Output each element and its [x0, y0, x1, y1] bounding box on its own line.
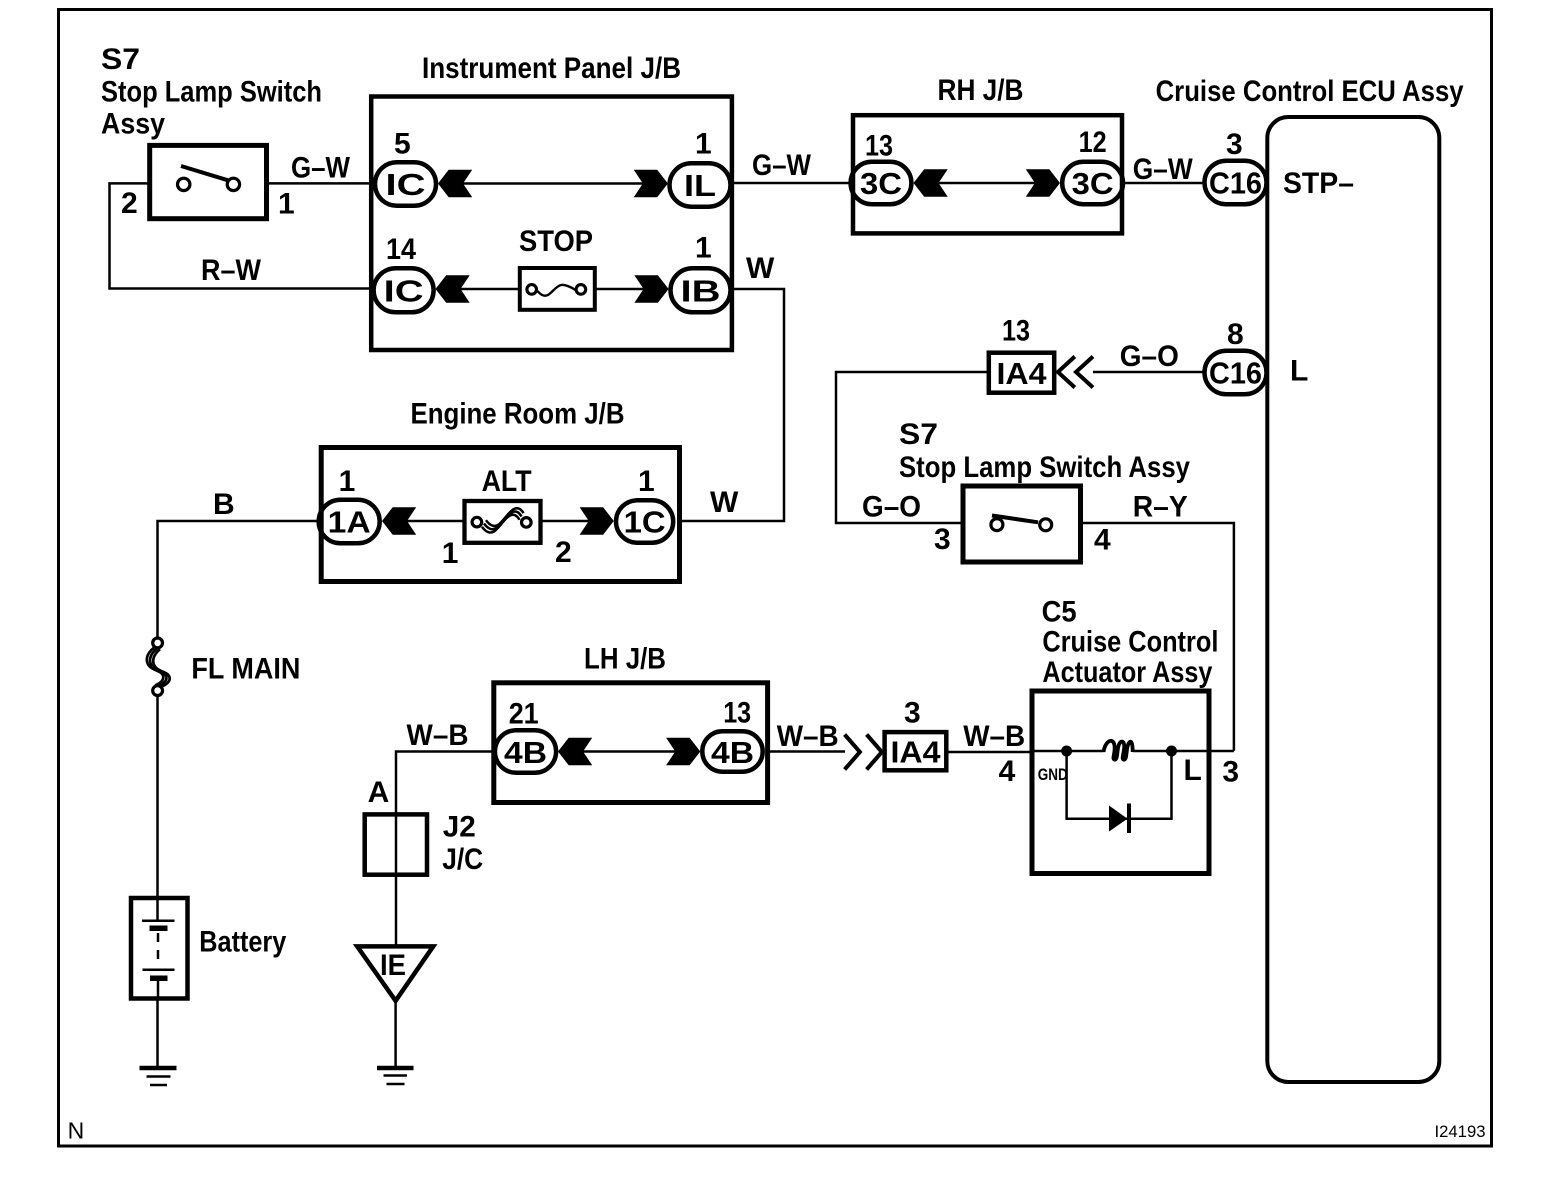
svg-text:3: 3 [1226, 128, 1243, 161]
connector IC (pin 5) [375, 162, 436, 206]
svg-text:S7: S7 [899, 418, 938, 451]
svg-text:2: 2 [121, 187, 138, 220]
svg-text:W: W [746, 252, 775, 285]
ground (IE) [377, 1068, 414, 1084]
svg-text:IC: IC [384, 273, 424, 308]
svg-text:L: L [1290, 355, 1308, 388]
double chevron right (shield connector) [845, 735, 882, 770]
svg-text:Instrument Panel J/B: Instrument Panel J/B [422, 52, 681, 85]
svg-text:8: 8 [1227, 318, 1244, 351]
connector IC (pin 14) [374, 268, 434, 312]
svg-text:W–B: W–B [777, 720, 839, 753]
svg-text:4B: 4B [504, 735, 547, 770]
svg-text:1C: 1C [624, 505, 666, 540]
connector 3C (pin 13) [851, 162, 912, 204]
fuse STOP [520, 268, 595, 310]
RH J/B box [853, 115, 1122, 233]
svg-text:Cruise Control ECU Assy: Cruise Control ECU Assy [1156, 75, 1464, 108]
wire G-W IL to RH J/B [732, 182, 853, 185]
wire row2 to fuse [461, 288, 520, 291]
wire from IA4 pin13 left and down to switch S7 pin 3 [836, 372, 989, 523]
connector 4B (pin 21) [495, 730, 556, 773]
svg-text:RH J/B: RH J/B [938, 74, 1024, 107]
arrow chevron right row2 [634, 275, 668, 303]
svg-text:1: 1 [638, 465, 655, 498]
svg-text:13: 13 [1002, 315, 1030, 348]
diode branch wires [1067, 751, 1172, 819]
svg-text:GND: GND [1038, 765, 1068, 784]
arrow chevron left LHJB [558, 738, 592, 766]
svg-text:G–W: G–W [1133, 153, 1194, 186]
svg-text:1: 1 [695, 128, 712, 161]
svg-text:R–Y: R–Y [1133, 491, 1188, 524]
Instrument Panel J/B box [371, 97, 732, 351]
wire R-Y from switch pin 4 right and down to actuator pin 3 [1081, 523, 1234, 751]
arrow chevron left row1 [438, 170, 472, 198]
svg-text:J/C: J/C [442, 843, 483, 876]
svg-text:A: A [368, 776, 390, 809]
svg-text:LH J/B: LH J/B [584, 643, 666, 676]
svg-text:IA4: IA4 [997, 356, 1048, 391]
svg-text:14: 14 [386, 233, 416, 266]
junction J2 J/C [365, 814, 427, 874]
wire W-B IA4 to actuator pin 4 [946, 751, 1032, 754]
wire to ALT fuse [407, 520, 465, 523]
junction connector IA4 (pin 13) [989, 353, 1054, 393]
svg-text:G–W: G–W [291, 152, 351, 185]
arrow chevron right LHJB [666, 738, 700, 766]
wire G-W switch S7 pin1 to IPJB [267, 182, 373, 185]
wire inside actuator right to pin 3 [1133, 750, 1234, 753]
ground triangle IE [357, 946, 433, 1000]
svg-text:13: 13 [723, 696, 751, 729]
svg-text:4: 4 [999, 755, 1016, 788]
double chevron left (shield connector) [1058, 357, 1093, 388]
connector IL (pin 1) [670, 163, 731, 206]
svg-text:3: 3 [934, 523, 951, 556]
svg-text:IB: IB [681, 273, 721, 308]
svg-text:C16: C16 [1209, 166, 1262, 201]
coil L (actuator solenoid) [1104, 741, 1133, 760]
connector C16 (pin 8) [1205, 351, 1267, 395]
svg-text:4: 4 [1094, 524, 1111, 557]
svg-text:FL MAIN: FL MAIN [191, 653, 300, 686]
svg-text:W–B: W–B [407, 719, 469, 752]
svg-text:G–W: G–W [752, 149, 812, 182]
svg-text:1: 1 [442, 537, 459, 570]
svg-text:W–B: W–B [963, 720, 1025, 753]
wire G-O C16 pin8 to chevrons [1093, 371, 1205, 374]
arrow chevron left RHJB [914, 169, 948, 197]
arrow chevron right RHJB [1026, 169, 1060, 197]
wire inside LH J/B [583, 750, 675, 753]
svg-text:Stop Lamp Switch: Stop Lamp Switch [101, 76, 322, 109]
svg-text:L: L [1184, 754, 1202, 787]
wire B battery to ERJB 1A [158, 521, 322, 637]
svg-text:3C: 3C [860, 166, 902, 201]
diode D (flyback) [1109, 804, 1129, 834]
svg-text:STP–: STP– [1283, 167, 1354, 200]
wire inside actuator left [1032, 750, 1104, 753]
svg-text:STOP: STOP [519, 225, 593, 258]
svg-text:1: 1 [339, 465, 356, 498]
svg-text:3C: 3C [1072, 166, 1114, 201]
connector C16 (pin 3) [1205, 161, 1267, 205]
wire ALT to chevron [541, 520, 589, 523]
wire R-W switch S7 pin2 down and right to IPJB IC14 [110, 183, 375, 288]
svg-text:1: 1 [278, 188, 295, 221]
svg-text:Engine Room J/B: Engine Room J/B [411, 398, 625, 431]
svg-text:C5: C5 [1042, 596, 1077, 629]
junction connector IA4 (pin 3) [885, 732, 947, 770]
svg-text:C16: C16 [1209, 356, 1262, 391]
svg-text:Assy: Assy [101, 108, 165, 141]
switch S7 (stop lamp switch assy, pins 3-4) [963, 486, 1081, 562]
svg-text:Stop Lamp Switch Assy: Stop Lamp Switch Assy [899, 451, 1190, 484]
switch S7 (stop lamp switch assy, pins 2-1) [150, 145, 267, 218]
svg-text:IE: IE [380, 949, 406, 982]
ground (battery) [140, 1068, 177, 1085]
svg-text:S7: S7 [101, 43, 140, 76]
wire W-B from LHJB 4B21 left and down to J2 [396, 752, 494, 947]
svg-text:IC: IC [386, 167, 426, 202]
svg-text:1A: 1A [328, 505, 371, 540]
wire G-W RH J/B to C16 [1122, 182, 1205, 185]
svg-text:13: 13 [865, 129, 893, 162]
svg-text:I24193: I24193 [1435, 1122, 1486, 1141]
fusible link ALT (pins 1-2) [465, 501, 541, 543]
svg-text:G–O: G–O [1120, 340, 1179, 373]
Engine Room J/B box [321, 448, 679, 582]
svg-text:3: 3 [1222, 756, 1239, 789]
svg-text:R–W: R–W [201, 254, 262, 287]
svg-text:IA4: IA4 [891, 735, 942, 770]
connector 1C (pin 1) [616, 500, 673, 542]
wire fuse to chevron [596, 288, 643, 291]
connector 4B (pin 13) [702, 731, 762, 771]
svg-text:Actuator Assy: Actuator Assy [1042, 656, 1212, 689]
actuator C5 box [1032, 691, 1209, 874]
battery [131, 898, 188, 999]
wire W-B LHJB 4B13 to chevrons [768, 750, 845, 753]
node junction dot GND [1061, 746, 1072, 757]
svg-text:Battery: Battery [199, 926, 286, 959]
svg-text:1: 1 [695, 232, 712, 265]
svg-text:5: 5 [394, 128, 411, 161]
svg-text:B: B [213, 488, 235, 521]
svg-text:21: 21 [509, 697, 539, 730]
svg-text:4B: 4B [711, 735, 754, 770]
svg-text:ALT: ALT [482, 465, 532, 498]
Cruise Control ECU Assy body [1267, 117, 1439, 1082]
fusible link FL MAIN [147, 638, 170, 695]
connector IB (pin 1) [671, 268, 731, 312]
LH J/B box [494, 683, 768, 803]
arrow chevron left ERJB [382, 507, 416, 535]
node junction dot L [1166, 746, 1177, 757]
svg-text:3: 3 [904, 697, 921, 730]
wire inside RH J/B [939, 182, 1036, 185]
svg-text:W: W [710, 486, 739, 519]
svg-text:Cruise Control: Cruise Control [1042, 625, 1218, 658]
wire IE to ground [394, 1001, 397, 1066]
arrow chevron right row1 [634, 170, 668, 198]
arrow chevron left row2 [436, 275, 470, 303]
arrow chevron right ERJB [580, 507, 614, 535]
svg-text:2: 2 [555, 536, 572, 569]
wire FL MAIN to battery [156, 696, 159, 898]
connector 3C (pin 12) [1062, 162, 1123, 204]
svg-text:N: N [68, 1118, 85, 1144]
svg-text:J2: J2 [443, 810, 476, 843]
connector 1A (pin 1) [319, 500, 380, 544]
wire W from IB right and down to Engine Room J/B [680, 289, 785, 521]
svg-text:IL: IL [684, 168, 716, 203]
wire battery to ground [156, 999, 159, 1067]
svg-text:12: 12 [1079, 126, 1107, 159]
wire row1 inside IPJB [463, 182, 643, 185]
svg-text:G–O: G–O [862, 491, 921, 524]
